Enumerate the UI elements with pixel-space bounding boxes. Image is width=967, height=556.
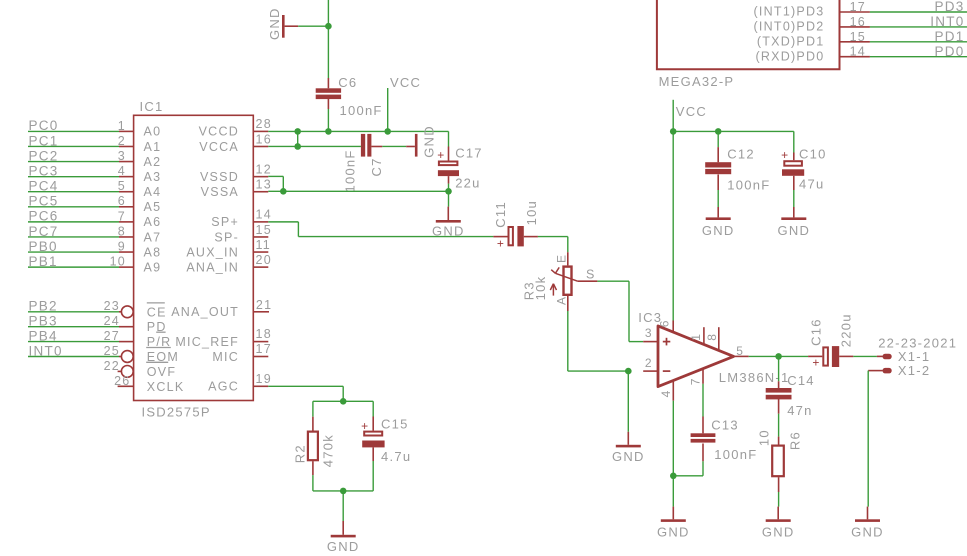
svg-text:XCLK: XCLK bbox=[147, 380, 185, 394]
wire R2 top leg bbox=[312, 401, 314, 416]
capacitor C13 100nF bbox=[691, 417, 758, 463]
junction at C6 top net bbox=[325, 23, 332, 30]
wire junction to GND bbox=[672, 476, 674, 507]
IC1 pin names right upper bbox=[186, 125, 239, 275]
svg-text:S: S bbox=[586, 267, 596, 281]
pin 6 stub IC1 bbox=[118, 194, 134, 208]
wire pin 4 down bbox=[672, 401, 674, 476]
svg-text:GND: GND bbox=[762, 524, 795, 539]
svg-text:PC4: PC4 bbox=[29, 179, 59, 194]
svg-text:PC6: PC6 bbox=[29, 209, 59, 224]
capacitor C12 100nF bbox=[705, 146, 770, 192]
svg-text:100nF: 100nF bbox=[714, 447, 757, 462]
svg-text:C14: C14 bbox=[787, 373, 815, 388]
wire C17 bottom to VSSA row bbox=[448, 184, 450, 192]
svg-text:16: 16 bbox=[850, 15, 866, 29]
svg-text:10u: 10u bbox=[524, 200, 539, 225]
wire net PC0 bbox=[28, 118, 119, 133]
ground GND below C17 bbox=[432, 207, 465, 239]
pin 2 stub IC1 bbox=[118, 134, 134, 148]
svg-text:15: 15 bbox=[850, 30, 866, 44]
svg-text:100nF: 100nF bbox=[727, 178, 770, 193]
svg-text:IC1: IC1 bbox=[140, 99, 164, 114]
wire C15 top leg bbox=[372, 401, 374, 416]
svg-text:10k: 10k bbox=[533, 276, 548, 301]
svg-text:PC1: PC1 bbox=[29, 133, 59, 148]
svg-text:14: 14 bbox=[256, 208, 272, 222]
pin 1 stub IC1 bbox=[118, 119, 134, 133]
svg-text:PD0: PD0 bbox=[934, 44, 964, 59]
svg-text:C7: C7 bbox=[369, 157, 384, 176]
wire net PC1 bbox=[28, 133, 119, 148]
wire vertical C6 top net bbox=[327, 0, 329, 78]
wire net INT0 left bbox=[28, 343, 119, 358]
capacitor C10 47u polarized bbox=[781, 146, 826, 191]
svg-text:PB2: PB2 bbox=[29, 299, 58, 314]
pin 3 non-inverting input bbox=[643, 326, 670, 345]
svg-text:A8: A8 bbox=[144, 245, 162, 259]
svg-text:15: 15 bbox=[256, 223, 272, 237]
wire bottom junction to GND bbox=[342, 491, 344, 521]
svg-text:+: + bbox=[361, 419, 369, 433]
junction VSSD-VSSA bbox=[280, 188, 287, 195]
svg-text:7: 7 bbox=[689, 377, 703, 385]
svg-text:MIC: MIC bbox=[212, 350, 239, 364]
svg-text:X1-2: X1-2 bbox=[898, 363, 930, 378]
wire VCC rail right bbox=[673, 130, 794, 132]
wire VCC down to op-amp pin 6 bbox=[672, 131, 674, 320]
svg-text:14: 14 bbox=[850, 45, 866, 59]
svg-text:10: 10 bbox=[756, 429, 771, 446]
resistor R2 470k bbox=[293, 417, 336, 475]
svg-text:PB3: PB3 bbox=[29, 314, 58, 329]
svg-text:19: 19 bbox=[256, 372, 272, 386]
pin 15 MEGA32 ((TXD)PD1) bbox=[757, 30, 870, 49]
ground GND below R6 bbox=[762, 507, 795, 540]
wire R2C15 bottom rail bbox=[313, 490, 373, 492]
resistor R6 10 bbox=[756, 429, 802, 492]
svg-text:C17: C17 bbox=[455, 145, 483, 160]
wire pin 7 to C13 bbox=[702, 384, 704, 417]
svg-text:MIC_REF: MIC_REF bbox=[175, 335, 239, 349]
IC1 right pins 28 16 12 13 14 15 11 20 stubs and numbers bbox=[253, 117, 272, 267]
svg-text:+: + bbox=[497, 236, 505, 250]
wire VCCD rail bbox=[268, 131, 448, 146]
svg-text:A1: A1 bbox=[144, 140, 162, 154]
junction VCCA row bbox=[294, 143, 301, 150]
junction VCC drop bbox=[384, 128, 391, 135]
svg-text:C11: C11 bbox=[493, 201, 508, 228]
svg-text:PB0: PB0 bbox=[29, 239, 58, 254]
svg-text:2: 2 bbox=[645, 356, 653, 370]
svg-text:A0: A0 bbox=[144, 125, 162, 139]
svg-text:X1-1: X1-1 bbox=[898, 349, 930, 364]
svg-text:47u: 47u bbox=[799, 176, 824, 191]
svg-text:+: + bbox=[812, 356, 820, 370]
wire C16 to X1-1 bbox=[853, 355, 877, 357]
wire net PB2 bbox=[28, 299, 119, 314]
wire net PD1 bbox=[870, 29, 967, 44]
junction R2 C15 bottom bbox=[340, 488, 347, 495]
ground GND below pin2 net bbox=[612, 432, 645, 464]
pin 8 stub IC1 bbox=[118, 224, 134, 238]
junction pin2 net bbox=[625, 368, 632, 375]
wire net PC3 bbox=[28, 163, 119, 178]
wire output to C14 bbox=[778, 356, 780, 381]
svg-text:PC0: PC0 bbox=[29, 118, 59, 133]
svg-text:CE: CE bbox=[147, 305, 167, 319]
svg-text:3: 3 bbox=[118, 149, 126, 163]
connector pad X1-2 bbox=[868, 363, 930, 378]
svg-text:4.7u: 4.7u bbox=[381, 449, 411, 464]
wire net PC5 bbox=[28, 194, 119, 209]
svg-text:VSSA: VSSA bbox=[201, 185, 239, 199]
ground GND below C10 bbox=[777, 207, 810, 238]
wire op-amp output bbox=[749, 355, 808, 357]
svg-text:17: 17 bbox=[256, 342, 272, 356]
svg-text:MEGA32-P: MEGA32-P bbox=[659, 74, 735, 89]
pin 6 V+ stub bbox=[658, 319, 674, 332]
wire VCCA row bbox=[268, 131, 361, 146]
svg-text:GND: GND bbox=[422, 125, 437, 158]
svg-text:4: 4 bbox=[659, 389, 673, 397]
wire VSSA row bbox=[268, 190, 448, 192]
wire AGC net bbox=[268, 386, 343, 401]
svg-text:+: + bbox=[781, 148, 789, 162]
svg-text:1: 1 bbox=[689, 333, 703, 341]
wire R6 to GND bbox=[778, 492, 780, 507]
svg-text:17: 17 bbox=[850, 0, 866, 14]
svg-text:12: 12 bbox=[256, 162, 272, 176]
pin 1 gain stub bbox=[689, 327, 704, 344]
wire net INT0 bbox=[870, 14, 967, 29]
pin 24 stub (PD) bbox=[104, 314, 134, 328]
svg-text:3: 3 bbox=[645, 326, 653, 340]
op-amp IC3 LM386N-1 triangle bbox=[638, 310, 789, 387]
microcontroller IC2 MEGA32-P body (clipped) bbox=[657, 0, 840, 89]
wire VCC to C12 bbox=[717, 131, 719, 147]
capacitor C11 10u polarized (horizontal) bbox=[493, 200, 539, 250]
svg-text:C15: C15 bbox=[381, 416, 409, 431]
pin 26 stub (XCLK) bbox=[114, 374, 134, 388]
svg-text:C6: C6 bbox=[338, 75, 357, 90]
wire R2 bottom leg bbox=[312, 475, 314, 491]
svg-text:A: A bbox=[555, 296, 569, 305]
ground GND below X1-2 bbox=[851, 507, 884, 540]
wire C15 bottom leg bbox=[372, 461, 374, 491]
wire net PD0 bbox=[870, 44, 967, 59]
svg-text:PC7: PC7 bbox=[29, 224, 59, 239]
pin 17 MEGA32 ((INT1)PD3) bbox=[754, 0, 870, 19]
ground GND below C12 bbox=[702, 207, 735, 238]
wire R3 bottom A to pin2 net bbox=[568, 311, 629, 371]
wire net PB0 bbox=[28, 239, 119, 254]
svg-text:OVF: OVF bbox=[147, 365, 176, 379]
svg-text:VCC: VCC bbox=[390, 75, 421, 90]
wire R2C15 top rail bbox=[313, 400, 373, 402]
wire C11 to R3 top bbox=[538, 237, 568, 253]
svg-text:(RXD)PD0: (RXD)PD0 bbox=[755, 49, 824, 63]
svg-text:6: 6 bbox=[118, 194, 126, 208]
svg-text:9: 9 bbox=[118, 239, 126, 253]
svg-text:22: 22 bbox=[104, 359, 120, 373]
svg-text:18: 18 bbox=[256, 327, 272, 341]
svg-text:VSSD: VSSD bbox=[200, 170, 239, 184]
text date 22-23-2021 bbox=[878, 335, 957, 350]
junction C17 bottom bbox=[445, 188, 452, 195]
wire pin2 net to GND bbox=[627, 371, 629, 432]
wire net PD3 bbox=[870, 0, 967, 14]
power VCC top-middle bbox=[388, 75, 422, 132]
svg-text:SP-: SP- bbox=[214, 230, 239, 244]
svg-text:PC3: PC3 bbox=[29, 163, 59, 178]
svg-text:VCCA: VCCA bbox=[199, 140, 239, 154]
svg-text:A2: A2 bbox=[144, 155, 162, 169]
svg-text:ANA_OUT: ANA_OUT bbox=[171, 305, 239, 319]
svg-text:28: 28 bbox=[256, 117, 272, 131]
pin 4 GND stub bbox=[659, 381, 673, 401]
svg-text:PD3: PD3 bbox=[934, 0, 964, 14]
svg-text:PB1: PB1 bbox=[29, 254, 58, 269]
IC1 pin names right lower bbox=[171, 305, 239, 394]
svg-text:22-23-2021: 22-23-2021 bbox=[878, 335, 957, 350]
pin 7 stub IC1 bbox=[118, 209, 134, 223]
wire R3 wiper S to op-amp pin3 bbox=[597, 281, 643, 341]
junction C6 bottom bbox=[325, 128, 332, 135]
pin 5 output stub bbox=[734, 344, 749, 358]
svg-text:A6: A6 bbox=[144, 215, 162, 229]
svg-text:20: 20 bbox=[256, 253, 272, 267]
wire VCC to C10 bbox=[793, 131, 795, 152]
svg-text:E: E bbox=[555, 254, 569, 263]
pin 5 stub IC1 bbox=[118, 179, 134, 193]
svg-text:26: 26 bbox=[114, 374, 130, 388]
svg-text:8: 8 bbox=[118, 224, 126, 238]
svg-text:AGC: AGC bbox=[208, 380, 239, 394]
junction AGC R2 C15 top bbox=[340, 398, 347, 405]
wire net PB3 bbox=[28, 314, 119, 329]
pin 25 stub with inversion bubble (EOM) bbox=[104, 344, 134, 363]
svg-text:GND: GND bbox=[267, 7, 282, 40]
svg-text:100nF: 100nF bbox=[340, 103, 383, 118]
capacitor C17 22u polarized bbox=[437, 145, 483, 190]
svg-text:21: 21 bbox=[256, 298, 272, 312]
wire C6 bottom to VCCD rail bbox=[327, 109, 329, 131]
svg-text:VCCD: VCCD bbox=[199, 125, 239, 139]
svg-text:7: 7 bbox=[118, 209, 126, 223]
svg-text:6: 6 bbox=[658, 319, 672, 327]
svg-text:A9: A9 bbox=[144, 260, 162, 274]
pin 27 stub (P/R) bbox=[104, 329, 134, 343]
svg-text:INT0: INT0 bbox=[930, 14, 964, 29]
wire net PB4 bbox=[28, 328, 119, 343]
junction VCCD-VCCA link top bbox=[294, 128, 301, 135]
junction pin4-C13 bbox=[670, 473, 677, 480]
ground GND below op-amp bbox=[657, 507, 690, 540]
svg-text:PC5: PC5 bbox=[29, 194, 59, 209]
svg-text:+: + bbox=[437, 148, 445, 162]
svg-text:AUX_IN: AUX_IN bbox=[186, 245, 239, 259]
svg-text:C16: C16 bbox=[809, 318, 824, 346]
capacitor C7 100nF (rotated) bbox=[342, 134, 384, 193]
wire C13 bottom to pin4 net bbox=[673, 461, 703, 476]
svg-text:11: 11 bbox=[256, 238, 271, 252]
svg-text:PB4: PB4 bbox=[29, 328, 58, 343]
svg-text:PC2: PC2 bbox=[29, 148, 59, 163]
svg-text:A4: A4 bbox=[144, 185, 162, 199]
ground GND below R2 C15 bbox=[327, 521, 360, 554]
svg-text:5: 5 bbox=[736, 344, 744, 358]
potentiometer R3 10k bbox=[522, 252, 598, 311]
svg-text:(INT0)PD2: (INT0)PD2 bbox=[754, 20, 825, 34]
svg-text:A7: A7 bbox=[144, 230, 162, 244]
IC1 pin names A0-A9 bbox=[144, 125, 162, 275]
svg-text:PD1: PD1 bbox=[934, 29, 964, 44]
MEGA32 clipped top pin name bbox=[747, 0, 825, 1]
pin 17 stub (MIC) bbox=[253, 342, 272, 357]
pin 2 inverting input bbox=[643, 356, 670, 371]
wire net PC4 bbox=[28, 179, 119, 194]
wire C7 to GND bbox=[382, 145, 406, 147]
svg-text:GND: GND bbox=[657, 524, 690, 539]
svg-text:16: 16 bbox=[256, 132, 272, 146]
pin 19 stub (AGC) bbox=[253, 372, 272, 387]
pin 18 stub (MIC_REF) bbox=[253, 327, 272, 342]
svg-text:220u: 220u bbox=[838, 313, 853, 347]
svg-text:GND: GND bbox=[327, 539, 360, 554]
svg-text:47n: 47n bbox=[787, 403, 812, 418]
wire net PC6 bbox=[28, 209, 119, 224]
svg-text:(INT1)PD3: (INT1)PD3 bbox=[754, 5, 825, 19]
capacitor C16 220u polarized (horizontal) bbox=[808, 313, 853, 369]
pin 9 stub IC1 bbox=[118, 239, 134, 253]
IC IC1 ISD2575P body bbox=[134, 99, 254, 420]
pin 4 stub IC1 bbox=[118, 164, 134, 178]
pin 8 gain stub bbox=[705, 327, 719, 350]
svg-text:GND: GND bbox=[777, 223, 810, 238]
wire GND stub to junction bbox=[298, 25, 328, 27]
svg-text:8: 8 bbox=[705, 333, 719, 341]
svg-text:C12: C12 bbox=[727, 146, 755, 161]
wire C10 to GND bbox=[793, 190, 795, 207]
svg-text:(TXD)PD1: (TXD)PD1 bbox=[757, 34, 825, 48]
IC1 pin names lower left CE PD P/R EOM OVF XCLK bbox=[146, 303, 184, 394]
ground GND right of C7 (rotated) bbox=[406, 125, 436, 158]
svg-text:SP+: SP+ bbox=[211, 215, 239, 229]
svg-text:GND: GND bbox=[851, 524, 884, 539]
pin 3 stub IC1 bbox=[118, 149, 134, 163]
svg-text:(OC1B)PD4: (OC1B)PD4 bbox=[747, 0, 825, 1]
svg-text:A5: A5 bbox=[144, 200, 162, 214]
svg-text:R2: R2 bbox=[293, 444, 308, 463]
svg-text:GND: GND bbox=[612, 449, 645, 464]
pin 16 MEGA32 ((INT0)PD2) bbox=[754, 15, 870, 34]
svg-text:C13: C13 bbox=[711, 417, 739, 432]
svg-text:R6: R6 bbox=[787, 431, 802, 450]
svg-text:470k: 470k bbox=[321, 434, 336, 467]
junction output net bbox=[775, 353, 782, 360]
svg-text:C10: C10 bbox=[799, 146, 827, 161]
capacitor C14 47n bbox=[766, 373, 815, 418]
svg-text:4: 4 bbox=[118, 164, 126, 178]
pin 22 stub with inversion bubble (OVF) bbox=[104, 359, 134, 378]
wire C14 to R6 bbox=[778, 414, 780, 437]
svg-text:ISD2575P: ISD2575P bbox=[142, 404, 211, 419]
svg-text:22u: 22u bbox=[455, 176, 480, 191]
pin 7 bypass stub bbox=[689, 369, 703, 386]
pin 10 stub IC1 bbox=[110, 255, 134, 269]
svg-text:A3: A3 bbox=[144, 170, 162, 184]
junction VCC rail at C12 bbox=[715, 128, 722, 135]
ground GND top-left (rotated) bbox=[267, 7, 298, 40]
svg-text:100nF: 100nF bbox=[342, 149, 357, 192]
wire net PC7 bbox=[28, 224, 119, 239]
wire net PB1 bbox=[28, 254, 119, 269]
svg-text:VCC: VCC bbox=[676, 104, 707, 119]
wire net PC2 bbox=[28, 148, 119, 163]
capacitor C6 100nF bbox=[316, 75, 383, 118]
connector pad X1-1 bbox=[877, 349, 930, 364]
svg-text:2: 2 bbox=[118, 134, 126, 148]
junction VCC rail at drop bbox=[670, 128, 677, 135]
svg-text:ANA_IN: ANA_IN bbox=[186, 260, 239, 274]
svg-text:1: 1 bbox=[118, 119, 126, 133]
pin 23 stub with inversion bubble (CE) bbox=[104, 299, 134, 317]
pin 21 stub (ANA_OUT) bbox=[253, 298, 272, 312]
wire SP+ net to C11 bbox=[268, 222, 493, 237]
wire C12 to GND bbox=[717, 190, 719, 207]
svg-text:13: 13 bbox=[256, 178, 272, 192]
power VCC right section bbox=[673, 100, 707, 132]
svg-text:INT0: INT0 bbox=[29, 343, 63, 358]
wire VSSD jog bbox=[268, 176, 283, 191]
wire X1-2 to GND bbox=[867, 371, 869, 507]
svg-text:5: 5 bbox=[118, 179, 126, 193]
wire C17 GND drop bbox=[448, 191, 450, 206]
pin 14 MEGA32 ((RXD)PD0) bbox=[755, 45, 869, 64]
capacitor C15 4.7u polarized bbox=[361, 416, 411, 464]
svg-text:GND: GND bbox=[702, 223, 735, 238]
